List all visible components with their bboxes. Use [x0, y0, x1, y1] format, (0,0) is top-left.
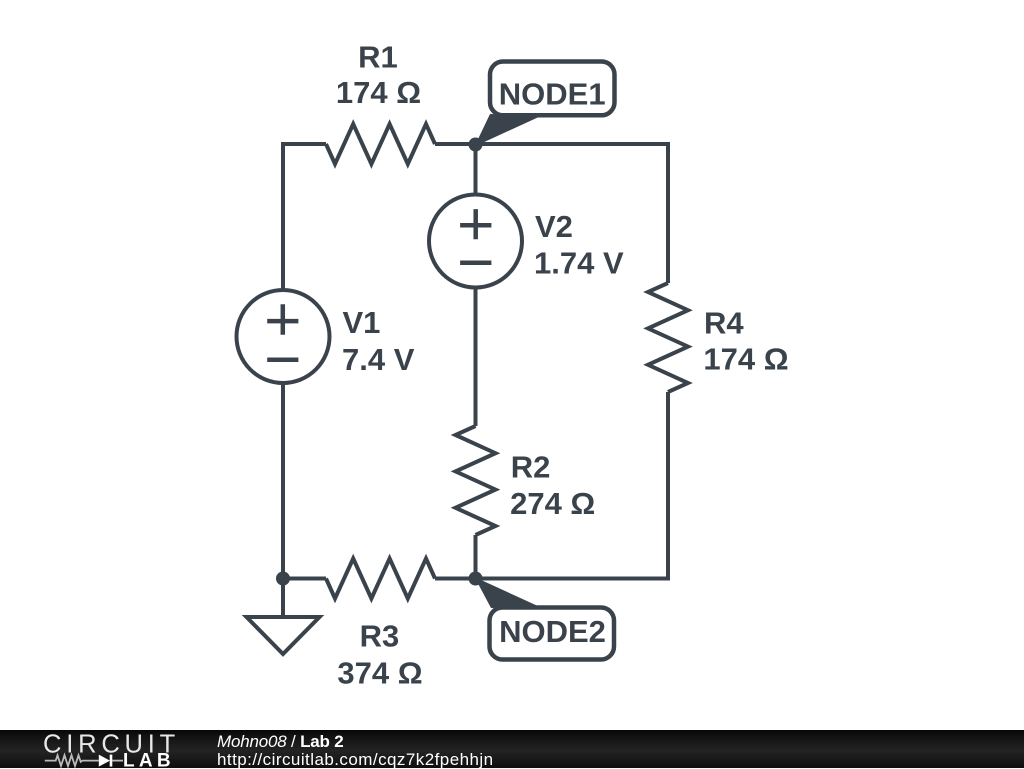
- footer url text: [217, 751, 494, 768]
- logo resistor zigzag wire: [45, 755, 99, 766]
- CircuitLab logo: [0, 730, 200, 769]
- svg-text:R2: R2: [511, 449, 551, 484]
- logo diode: [99, 754, 110, 766]
- wire left vertical bottom (V1 bottom to ground dot): [283, 381, 326, 579]
- V2 plus sign: [460, 209, 491, 239]
- NODE2 label box: [490, 608, 615, 660]
- V2 minus sign: [460, 261, 491, 266]
- wire V2 bottom to R2 top: [474, 286, 478, 427]
- svg-text:V2: V2: [535, 209, 573, 244]
- wire R2 bottom to node2: [474, 535, 478, 579]
- wire top horizontal (R1 end through NODE1 to right corner): [435, 144, 668, 283]
- svg-text:R3: R3: [360, 619, 400, 654]
- wire left vertical top (node1 corner to V1 top): [283, 144, 326, 292]
- wire V2 top stub: [474, 145, 478, 197]
- svg-text:LAB: LAB: [123, 750, 175, 769]
- NODE1 pointer wedge: [475, 114, 542, 147]
- resistor R1 zigzag: [326, 124, 435, 164]
- resistor R2 zigzag: [456, 426, 496, 535]
- svg-text:274 Ω: 274 Ω: [510, 486, 595, 521]
- resistor R4 zigzag: [648, 283, 688, 392]
- footer bar: [0, 730, 1024, 769]
- svg-text:1.74 V: 1.74 V: [534, 246, 624, 281]
- svg-text:374 Ω: 374 Ω: [337, 655, 422, 690]
- svg-text:174 Ω: 174 Ω: [703, 342, 788, 377]
- footer title text: [217, 733, 343, 750]
- svg-text:NODE2: NODE2: [499, 614, 606, 649]
- ground symbol: [281, 579, 285, 618]
- V1 minus sign: [267, 357, 298, 362]
- node junction dot ground: [276, 572, 290, 586]
- svg-text:R1: R1: [358, 39, 398, 74]
- svg-text:R4: R4: [704, 305, 744, 340]
- svg-text:7.4 V: 7.4 V: [342, 342, 415, 377]
- voltage source V2 circle: [429, 195, 522, 288]
- NODE2 pointer wedge: [475, 577, 541, 608]
- NODE1 label box: [490, 62, 615, 116]
- wire R3 end to node2: [435, 577, 476, 581]
- V1 plus sign: [267, 304, 298, 335]
- svg-text:NODE1: NODE1: [499, 77, 606, 112]
- voltage source V1 circle: [237, 290, 330, 383]
- svg-text:174 Ω: 174 Ω: [336, 75, 421, 110]
- node junction dot NODE1: [469, 138, 483, 152]
- wire right vertical below R4 to bottom corner: [476, 392, 669, 579]
- node junction dot NODE2: [469, 572, 483, 586]
- svg-text:V1: V1: [343, 305, 381, 340]
- resistor R3 zigzag: [326, 559, 435, 599]
